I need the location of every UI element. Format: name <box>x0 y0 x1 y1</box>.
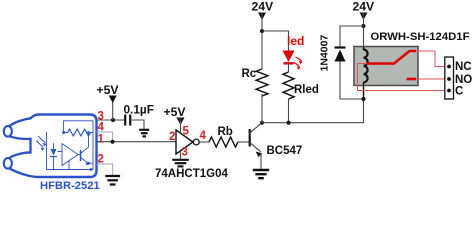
pin 2 stub wire <box>97 164 113 176</box>
svg-text:C: C <box>455 86 463 98</box>
svg-text:Rled: Rled <box>294 84 319 96</box>
pin 1 signal wire <box>97 141 176 143</box>
svg-text:Rc: Rc <box>242 68 257 80</box>
svg-text:+5V: +5V <box>164 105 187 119</box>
node pin1/pin4 junction <box>111 140 115 144</box>
red wire NO <box>416 78 448 80</box>
internal resistor <box>68 129 94 136</box>
node 24V junction <box>260 29 264 33</box>
light arrows <box>39 137 46 143</box>
svg-text:24V: 24V <box>252 0 275 14</box>
ground for pin 2 <box>105 176 120 185</box>
photodiode D internal <box>53 144 55 150</box>
inverter ground <box>180 151 182 160</box>
wire Rb to base <box>238 141 249 143</box>
wire LED to Rled <box>288 63 290 72</box>
SECTION: HFBR module <box>4 115 97 178</box>
internal transistor <box>78 154 81 156</box>
relay armature (red) <box>367 51 417 64</box>
collector bus wire <box>262 99 364 123</box>
svg-text:1: 1 <box>98 134 105 146</box>
relay coil <box>363 47 365 50</box>
ground for emitter <box>253 170 269 178</box>
ground for capacitor <box>139 130 149 137</box>
node Rled/bus junction <box>287 121 291 125</box>
emitter lead with arrow <box>250 143 261 152</box>
svg-text:4: 4 <box>200 130 207 142</box>
svg-text:24V: 24V <box>353 0 376 14</box>
svg-text:led: led <box>287 34 304 48</box>
pin 4 stub wire <box>97 132 113 142</box>
svg-text:NO: NO <box>455 74 472 86</box>
red wire C <box>358 64 449 91</box>
LED light rays <box>296 57 302 61</box>
wire to diode <box>340 26 364 48</box>
terminal dot NO <box>447 77 451 81</box>
svg-text:74AHCT1G04: 74AHCT1G04 <box>155 168 228 180</box>
terminal dot C <box>447 89 451 93</box>
wire 24V to led branch <box>262 31 289 52</box>
fiber receiver HFBR-2521 body outline <box>10 115 97 178</box>
connector port ellipse bottom <box>4 158 12 169</box>
svg-text:HFBR-2521: HFBR-2521 <box>40 180 100 192</box>
svg-text:ORWH-SH-124D1F: ORWH-SH-124D1F <box>371 31 470 43</box>
node pin3/+5V junction <box>111 118 115 122</box>
inverter U1 74AHCT1G04 triangle <box>176 130 193 154</box>
terminal dot NC <box>447 65 451 69</box>
transistor Q1 BC547 base bar <box>249 129 251 147</box>
svg-text:2: 2 <box>169 131 175 143</box>
collector lead <box>250 123 262 133</box>
wire inverter out to Rb <box>199 141 209 143</box>
pin 3 wire <box>97 119 125 121</box>
svg-text:0.1µF: 0.1µF <box>124 103 154 117</box>
svg-text:3: 3 <box>182 147 188 159</box>
svg-text:+5V: +5V <box>97 83 120 97</box>
connector port ellipse top <box>4 126 12 137</box>
collector node <box>260 121 264 125</box>
terminal block <box>445 57 454 99</box>
inverter output bubble <box>193 139 199 145</box>
node dot internal <box>62 131 65 134</box>
red wire NC <box>416 51 448 67</box>
node 24V/diode junction <box>362 24 366 28</box>
svg-text:NC: NC <box>455 61 472 73</box>
svg-text:BC547: BC547 <box>267 145 303 157</box>
internal pull-up wire <box>63 121 65 133</box>
node diode/coil junction <box>362 97 366 101</box>
svg-text:5: 5 <box>183 126 190 138</box>
amplifier triangle internal <box>62 144 78 166</box>
connector horn curves <box>10 136 31 139</box>
svg-text:1N4007: 1N4007 <box>319 35 331 72</box>
inner circuit box <box>47 121 94 170</box>
relay box ORWH-SH-124D1F <box>354 47 418 86</box>
relay NO contact (red) <box>407 78 417 81</box>
